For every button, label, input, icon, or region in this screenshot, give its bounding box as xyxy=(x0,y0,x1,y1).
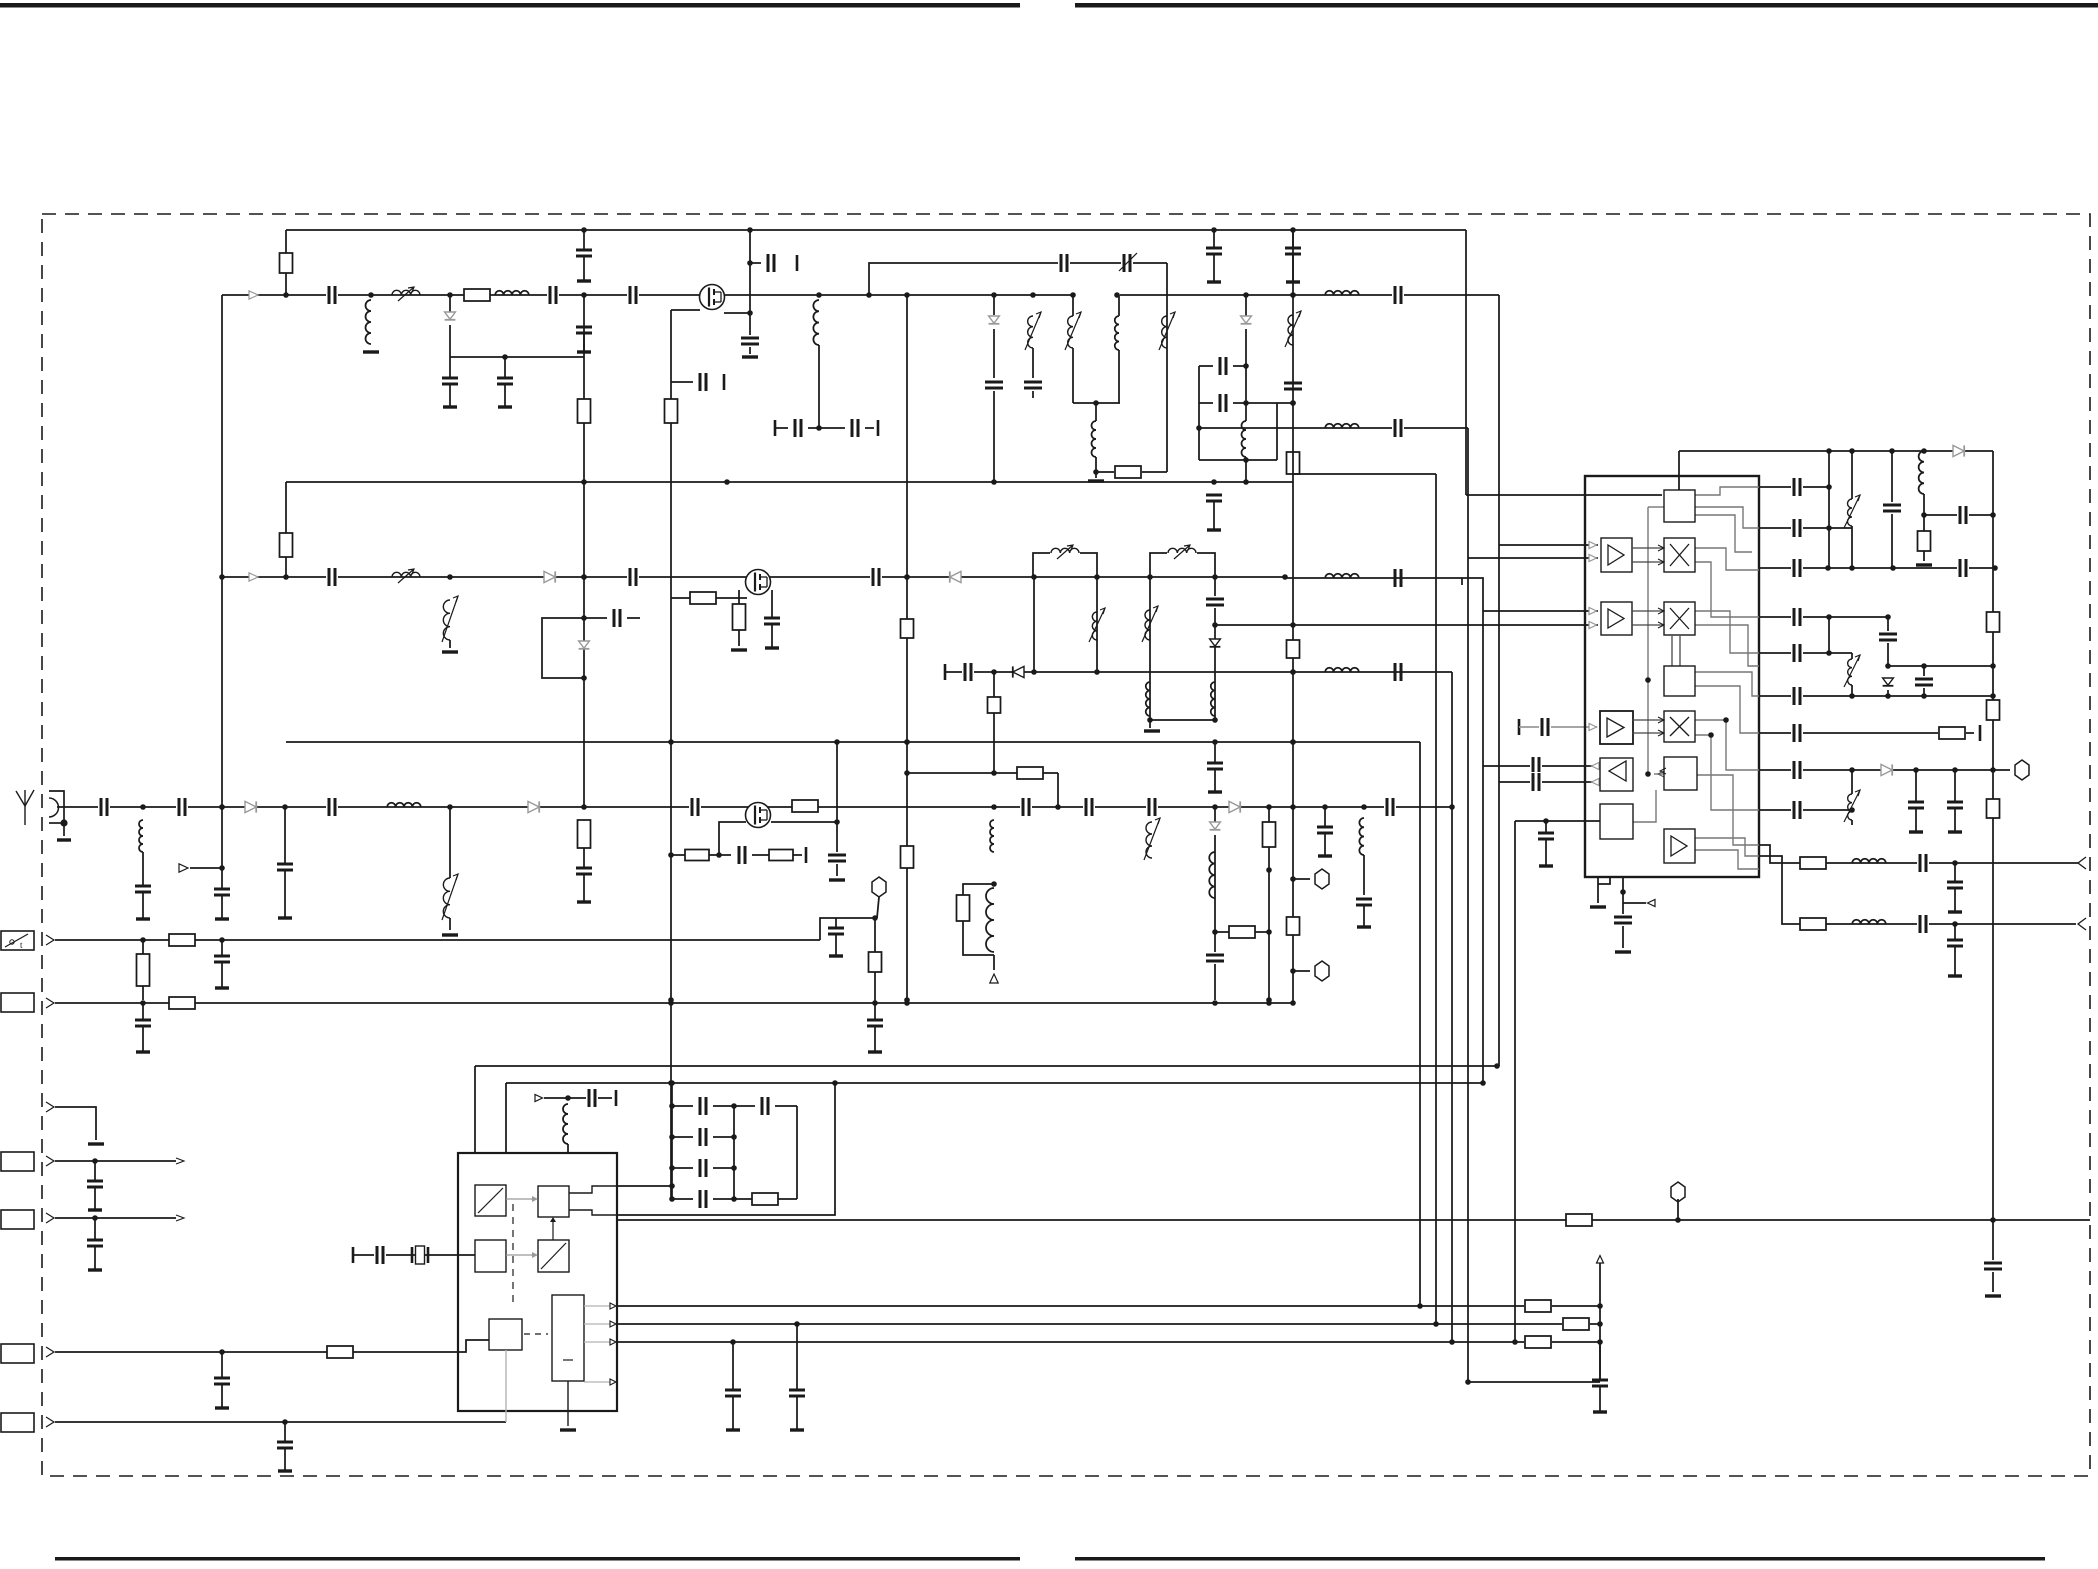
resistor row1306 xyxy=(1525,1300,1551,1312)
node row1220-1678 xyxy=(1675,1217,1681,1223)
node row2-1215 xyxy=(1212,574,1218,580)
wire tank lead a xyxy=(1095,403,1097,421)
wire rx994 left branch xyxy=(963,884,994,895)
node rx-450 xyxy=(447,804,453,810)
node row1-1293 xyxy=(1290,292,1296,298)
node v750-263 xyxy=(747,260,753,266)
node tx5-403 xyxy=(1243,400,1249,406)
node rail2-1214 xyxy=(1211,479,1217,485)
capacitor row2 C3 xyxy=(870,567,882,587)
arrow U1 pin2 xyxy=(1648,900,1656,907)
wire vbus 1420 xyxy=(1419,742,1421,1306)
diode row672 xyxy=(1013,666,1024,677)
wire vbus right xyxy=(1992,451,1994,1262)
wire row1083 xyxy=(506,1082,1483,1084)
wire U1 mixer3 outs xyxy=(1695,720,1759,770)
node trimDE-696 xyxy=(1849,693,1855,699)
wire row2 loop1b xyxy=(1080,553,1097,577)
capacitor ladder 2 xyxy=(697,1127,709,1147)
arrow mixer in2 xyxy=(1658,608,1664,614)
wire v671 xyxy=(670,310,672,1199)
ground row2 thermistor xyxy=(442,650,458,653)
node row672-994 xyxy=(991,669,997,675)
node rowC-1893 xyxy=(1890,565,1896,571)
node v907-773 xyxy=(904,770,910,776)
inductor osc xyxy=(563,1104,568,1144)
terminal row428 L xyxy=(774,420,777,436)
capacitor buf2 xyxy=(1530,772,1542,792)
wire v1888 a xyxy=(1887,617,1889,631)
node v1293-403 xyxy=(1290,400,1296,406)
node v907-295 xyxy=(904,292,910,298)
wire amp1 in upper xyxy=(1499,544,1598,546)
wire vbus 1515 xyxy=(1514,821,1516,1342)
wire rx input xyxy=(57,806,1452,808)
inductor rx L1 xyxy=(387,803,421,807)
node rowH-1852 xyxy=(1849,767,1855,773)
arrow amp1 a xyxy=(1589,542,1597,549)
capacitor rowE xyxy=(1791,643,1803,663)
wire loop584 xyxy=(542,618,584,678)
capacitor out1 xyxy=(1917,853,1929,873)
arrow conn5 xyxy=(46,1156,54,1166)
node row1-869 xyxy=(866,292,872,298)
resistor Q2 gate xyxy=(690,592,716,604)
wire U1 gnd pin1 xyxy=(1597,877,1599,903)
wire row1342 end xyxy=(1552,1341,1600,1343)
IC buffer inverting xyxy=(1600,758,1633,791)
node rowF-1993 xyxy=(1990,693,1996,699)
ground Q2 source xyxy=(731,648,747,651)
wire top supply rail xyxy=(286,229,1466,231)
connector box 3 xyxy=(1,993,34,1012)
wire trimH lead xyxy=(1851,820,1853,825)
wire tx1 mid xyxy=(993,329,995,378)
inductor W3 var xyxy=(1162,316,1167,348)
terminal osc stub xyxy=(615,1090,618,1106)
arrow row2 input xyxy=(249,573,258,581)
ground rx thermistor xyxy=(442,933,458,936)
wire rail to IC top xyxy=(1466,494,1662,496)
node row1-1117 xyxy=(1114,292,1120,298)
wire v1034 xyxy=(1033,577,1035,672)
node row1218-95 xyxy=(92,1215,98,1221)
wire row428 left c xyxy=(865,427,874,429)
resistor Q3 r2 xyxy=(769,850,793,861)
capacitor v584 bypass xyxy=(576,326,592,329)
page header rule right xyxy=(1075,3,2098,8)
wire tx3 top xyxy=(1072,295,1074,316)
U2 dashed divider line xyxy=(512,1204,514,1308)
wire rowG xyxy=(1759,732,1938,734)
node tx1-482 xyxy=(991,479,997,485)
wire trimH top xyxy=(1851,770,1853,794)
U2 block prescaler xyxy=(475,1185,506,1216)
node row672-1097 xyxy=(1094,669,1100,675)
node rail742-1215 xyxy=(1212,739,1218,745)
wire txpi b2 xyxy=(1233,402,1293,404)
terminal rowG xyxy=(1979,725,1982,741)
node v1269-932 xyxy=(1266,929,1272,935)
node v1215-720 xyxy=(1212,717,1218,723)
capacitor rowF xyxy=(1791,686,1803,706)
node rx-584 xyxy=(581,804,587,810)
node tx tank-472 xyxy=(1093,469,1099,475)
resistor v671 xyxy=(665,399,678,423)
wire row868 xyxy=(190,867,222,869)
node rx-1215 xyxy=(1212,804,1218,810)
ground tx tank xyxy=(1088,479,1104,482)
node rowC-1828 xyxy=(1825,565,1831,571)
wire rowI xyxy=(1759,809,1852,811)
wire U1 sq-top taps xyxy=(1648,506,1664,508)
wire row940 xyxy=(55,939,820,941)
wire U1 pin1 step xyxy=(1598,877,1610,884)
inductor v1150 xyxy=(1146,682,1150,716)
diode rx D2 xyxy=(528,801,539,812)
wire res932b xyxy=(1255,931,1269,933)
node vbus1436 end xyxy=(1433,1321,1439,1327)
diode rx D3 xyxy=(1229,801,1240,812)
capacitor row672 C1 xyxy=(962,662,974,682)
inductor out1 xyxy=(1852,859,1886,863)
terminal row3 bar xyxy=(944,664,947,680)
node ladder R1199 xyxy=(731,1196,737,1202)
wire trimB down xyxy=(1851,526,1853,570)
inductor row1 shunt xyxy=(366,300,372,344)
wire row1422 xyxy=(55,1421,506,1423)
capacitor lo1 xyxy=(1392,285,1404,305)
U2 block shift reg xyxy=(489,1319,522,1350)
connector box 6 xyxy=(1,1210,34,1229)
wire Q2 gate row xyxy=(671,597,747,599)
wire row1382 xyxy=(1468,1381,1600,1383)
arrow mixer in3 xyxy=(1658,717,1664,723)
capacitor xtal xyxy=(374,1245,386,1265)
resistor row1 series xyxy=(464,289,490,301)
wire U2 E grey tail xyxy=(505,1350,507,1422)
capacitor lo2 xyxy=(1392,418,1404,438)
node rowF-1924 xyxy=(1921,693,1927,699)
diode varactor rx1215 xyxy=(1210,822,1221,829)
diode varactor tx5 xyxy=(1241,316,1252,323)
transistor Q2 FET xyxy=(746,570,771,595)
wire buf out2 xyxy=(1499,781,1597,783)
capacitor rail2 bypass xyxy=(1206,494,1222,497)
capacitor row2 C1 xyxy=(326,567,338,587)
wire row773 corner xyxy=(1057,773,1059,807)
wire rowG end xyxy=(1966,732,1974,734)
wire osc stub xyxy=(544,1097,612,1099)
node rowD-1888 xyxy=(1885,614,1891,620)
capacitor v1150 trim xyxy=(1145,610,1150,640)
node osc-568 xyxy=(565,1095,571,1101)
capacitor Q2 bypass xyxy=(771,590,773,618)
wire tx3 down xyxy=(1072,348,1074,403)
inductor row1 ferrite var xyxy=(392,290,420,295)
node row2-1150 xyxy=(1147,574,1153,580)
node row2-286 xyxy=(283,574,289,580)
wire v1924 mid xyxy=(1923,494,1925,531)
capacitor row1422 xyxy=(284,1422,286,1442)
wire Q2 src stub xyxy=(738,590,740,604)
IC amplifier 1 xyxy=(1601,538,1632,572)
resistor row1342 xyxy=(1525,1336,1551,1348)
U2 dashes EF xyxy=(524,1333,548,1335)
capacitor ladder 4 xyxy=(697,1189,709,1209)
wire tx rail403 xyxy=(1073,402,1120,404)
capacitor buf1 xyxy=(1530,756,1542,776)
wire hex stub2 xyxy=(1293,970,1310,972)
wire choke tail xyxy=(818,345,820,428)
node hexagon E xyxy=(1671,1182,1685,1202)
page footer rule left xyxy=(55,1557,1020,1561)
terminal stub row1 xyxy=(796,255,799,271)
capacitor rail bypass 3 xyxy=(1292,230,1294,248)
node row666-1888 xyxy=(1885,663,1891,669)
wire ladder bot ext xyxy=(734,1198,752,1200)
wire tx1 lead xyxy=(993,295,995,315)
wire row1352 xyxy=(55,1340,489,1352)
wire U1 mixer2 outs xyxy=(1695,611,1759,653)
ground row1 shunt xyxy=(363,350,379,353)
node rx1215-932 xyxy=(1212,929,1218,935)
node ladder L1137 xyxy=(669,1134,675,1140)
wire ladder bot ext2 xyxy=(778,1198,797,1200)
node rail-1293 xyxy=(1290,227,1296,233)
wire loop584 cap lead xyxy=(584,617,607,619)
wire res to row1 xyxy=(285,230,287,253)
wire Q3 gate row b xyxy=(752,854,769,856)
node row428-1199 xyxy=(1196,425,1202,431)
node row1000-143 xyxy=(140,1000,146,1006)
capacitor rowI xyxy=(1791,800,1803,820)
resistor out1 xyxy=(1800,857,1826,869)
connector detector box xyxy=(1,931,34,950)
wire tx5 lead xyxy=(1245,295,1247,317)
diode varactor v1215 xyxy=(1210,639,1221,646)
node rail742-1293 xyxy=(1290,739,1296,745)
resistor v875 xyxy=(869,952,882,972)
resistor v1924 xyxy=(1918,531,1931,551)
capacitor row1352 xyxy=(221,1352,223,1378)
node row1-371 xyxy=(368,292,374,298)
node U1 int c xyxy=(1708,732,1714,738)
node rowH-1916 xyxy=(1913,767,1919,773)
IC amplifier 3 xyxy=(1600,711,1633,744)
resistor rx994 xyxy=(957,895,970,921)
wire U2 F tail xyxy=(567,1381,569,1426)
wire v1215 xyxy=(1214,577,1216,720)
capacitor v1293 bypass xyxy=(1283,380,1303,392)
node wrap top xyxy=(832,1080,838,1086)
connector box 8 xyxy=(1,1413,34,1432)
U2 block osc xyxy=(475,1240,506,1272)
wire U2 F grey outs xyxy=(584,1305,610,1307)
node v1150-720 xyxy=(1147,717,1153,723)
node out2-1955 xyxy=(1952,921,1958,927)
inductor lo4 xyxy=(1325,668,1359,672)
wire v1888 c xyxy=(1887,690,1889,696)
node v1293-879 xyxy=(1290,876,1296,882)
capacitor rail bypass 1 xyxy=(583,230,585,250)
capacitor row515 xyxy=(1957,505,1969,525)
resistor v584 xyxy=(578,399,591,423)
wire U1 sqM outs xyxy=(1695,672,1759,696)
node U1 pin2 xyxy=(1620,889,1626,895)
wire amp1 in lower xyxy=(1468,557,1598,559)
wire capC top xyxy=(1891,451,1893,502)
wire U2 A-B arrow xyxy=(506,1198,532,1200)
node vbus1452 end xyxy=(1449,1339,1455,1345)
node v1293-742 xyxy=(1290,739,1296,745)
node row1066 end xyxy=(1494,1063,1500,1069)
wire rowH xyxy=(1759,769,2010,771)
wire v994a xyxy=(993,672,995,773)
node row2-584 xyxy=(581,574,587,580)
diode varactor chain2 xyxy=(579,641,590,648)
ground U2 F xyxy=(560,1428,576,1431)
resistor rx1215-1269 xyxy=(1229,926,1255,938)
resistor v1293 c xyxy=(1287,917,1300,935)
wire U2 pin top2 xyxy=(505,1083,507,1153)
node v1293-971 xyxy=(1290,968,1296,974)
wire mixer2-sqM links xyxy=(1671,635,1673,666)
resistor out2 xyxy=(1800,918,1826,930)
node v1269-1000 xyxy=(1266,997,1272,1003)
wire row666 xyxy=(1888,665,1993,667)
wire hex A xyxy=(877,897,879,918)
wire varactor top lead xyxy=(449,295,451,313)
wire txpi bottom xyxy=(1199,459,1277,461)
trimmer arrow W3 xyxy=(1119,253,1137,271)
wire v584 xyxy=(583,295,585,807)
wire v1829b xyxy=(1828,617,1830,653)
node v1293-625 xyxy=(1290,622,1296,628)
diode row2 D2 xyxy=(950,571,961,582)
node v1600-1342 xyxy=(1597,1339,1603,1345)
node rowB-1829 xyxy=(1826,525,1832,531)
wire v750 lead xyxy=(749,347,751,354)
wire row672 ext xyxy=(1293,671,1452,673)
wire row2 loop2b xyxy=(1197,553,1215,577)
box resonator outline xyxy=(1293,473,1436,475)
wire v1293 main xyxy=(1292,230,1294,1003)
wire Q3 source jog xyxy=(771,821,837,823)
wire trimDE down xyxy=(1851,685,1853,696)
wire row428 xyxy=(1199,427,1468,429)
wire U1 internal bus xyxy=(1647,507,1649,775)
ground v1924 xyxy=(1916,563,1932,566)
wire v1924b xyxy=(1923,666,1925,676)
node row1000-1215 xyxy=(1212,1000,1218,1006)
capacitor txpi2 xyxy=(1217,393,1229,413)
resistor row2 thermistor xyxy=(443,600,450,640)
inductor row1 drain choke xyxy=(813,300,819,345)
capacitor rx shunt xyxy=(142,852,144,886)
node out1-1955 xyxy=(1952,860,1958,866)
wire U2 loop wrap xyxy=(617,1083,835,1215)
wire vbus 1499 xyxy=(1498,295,1500,1066)
node v671-1083 xyxy=(668,1080,674,1086)
wire v143c xyxy=(142,986,144,1000)
wire v875 xyxy=(874,918,876,1003)
connector box 5 xyxy=(1,1152,34,1171)
wire tx tank lead xyxy=(1095,457,1097,478)
node row1-1033 xyxy=(1030,292,1036,298)
wire U2 C-D arrow xyxy=(506,1254,532,1256)
node hexagon B xyxy=(1315,869,1329,889)
inductor lo3 xyxy=(1325,574,1359,578)
node rowH-1955 xyxy=(1952,767,1958,773)
node rx-994 xyxy=(991,804,997,810)
capacitor Q3 source xyxy=(827,852,847,864)
resistor ladder xyxy=(752,1193,778,1205)
node U1 int d xyxy=(1645,771,1651,777)
inductor lo1 xyxy=(1325,291,1359,295)
page footer rule right xyxy=(1075,1557,2045,1561)
IC block top square xyxy=(1664,490,1695,522)
wire v1888 b xyxy=(1887,643,1889,666)
node rowC-1995 xyxy=(1992,565,1998,571)
node rowI-1852 xyxy=(1849,807,1855,813)
resistor v907 a xyxy=(901,619,914,638)
node rail-584 xyxy=(581,227,587,233)
node v584-618 xyxy=(581,615,587,621)
arrow conn3 xyxy=(46,998,54,1008)
capacitor lo3 xyxy=(1392,568,1404,588)
wire IC top pin xyxy=(1678,451,1680,491)
diode row451 xyxy=(1953,445,1964,456)
node row2-450 xyxy=(447,574,453,580)
wire v837 tail xyxy=(836,864,838,876)
capacitor row1324 bypass xyxy=(796,1324,798,1390)
capacitor row918 xyxy=(835,918,837,928)
wire ladder right xyxy=(733,1106,735,1199)
wire U1 amp4 outs xyxy=(1695,838,1759,856)
capacitor out2 shunt xyxy=(1954,924,1956,940)
inductor tx4 xyxy=(1115,316,1119,350)
node row1083 end xyxy=(1480,1080,1486,1086)
wire amp2 in upper xyxy=(1483,610,1598,612)
node txpi-1246-460 xyxy=(1243,457,1249,463)
wire capC stub2 xyxy=(1891,514,1893,570)
node row1000-1269 xyxy=(1266,1000,1272,1006)
ground vbus xyxy=(1985,1294,2001,1297)
arrow buf2 xyxy=(1592,779,1600,786)
connector box 7 xyxy=(1,1344,34,1363)
wire ladder rungs xyxy=(672,1105,693,1107)
wire mid rail 482 xyxy=(286,481,1293,483)
wire vbus 1483 xyxy=(1461,578,1463,585)
capacitor W3 C2 trim xyxy=(1121,253,1133,273)
capacitor rx C7 xyxy=(1384,797,1396,817)
wire U2 pin top1 xyxy=(474,1066,476,1153)
terminal Q3 xyxy=(805,847,808,863)
node ladder pin xyxy=(669,1183,675,1189)
wire v1600 xyxy=(1599,1262,1601,1380)
capacitor v222 end xyxy=(214,888,230,891)
capacitor rowC out xyxy=(1957,558,1969,578)
capacitor v1215 bypass xyxy=(1205,596,1225,608)
capacitor row1218 xyxy=(94,1218,96,1240)
wire v1924c xyxy=(1923,688,1925,696)
capacitor v1924b xyxy=(1914,676,1934,688)
node v1269-870 xyxy=(1266,867,1272,873)
inductor row2 trim loop2 xyxy=(1168,548,1196,553)
node rowA-1829 xyxy=(1826,484,1832,490)
ground Q3 source xyxy=(829,878,845,881)
